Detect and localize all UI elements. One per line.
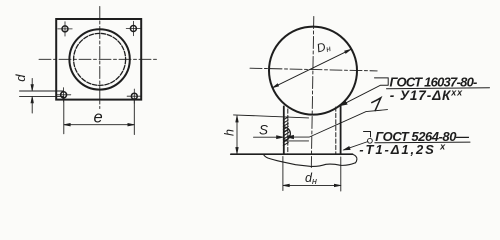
hole top-right — [126, 21, 140, 35]
hole bottom-left — [56, 88, 70, 102]
sphere vertical center line — [311, 17, 314, 168]
tube left wall — [283, 106, 285, 154]
weld callout leader (lower, ГОСТ 5264-80) with closed-contour circle — [344, 132, 373, 150]
base plate wavy break line (bottom) — [264, 155, 356, 167]
sphere horizontal center line — [250, 68, 377, 71]
svg-text:h: h — [223, 129, 237, 136]
svg-text:S: S — [259, 122, 268, 137]
pipe outer circle — [69, 29, 129, 89]
svg-text:e: e — [94, 109, 103, 127]
tube right wall — [340, 105, 342, 154]
vertical center line — [99, 7, 101, 109]
base plate broken-out edge (right) — [353, 154, 357, 163]
dimension d line with arrows — [31, 79, 34, 114]
horizontal center line — [39, 58, 159, 60]
dimension e line with arrows — [64, 123, 135, 126]
base plate top surface — [231, 153, 353, 155]
weld bead half-disc on left wall — [284, 127, 291, 140]
svg-text:- У17-ΔКхх: - У17-ΔКхх — [390, 87, 463, 103]
tube inner wall right (hidden) — [335, 107, 337, 154]
tube inner wall left (hidden) — [287, 109, 289, 154]
dimension d extension lines — [20, 91, 64, 96]
inner weld lower edge line — [284, 140, 309, 142]
weld callout leader (upper, ГОСТ 16037-80) — [341, 78, 389, 106]
h top extension line continuing inside tube — [234, 115, 309, 118]
svg-text:-Т1-Δ1,2S х: -Т1-Δ1,2S х — [359, 142, 447, 157]
svg-text:dн: dн — [305, 171, 317, 186]
wall hatch strip — [283, 117, 288, 146]
label 1 — [372, 98, 381, 111]
ball (sphere) outline — [269, 27, 357, 115]
svg-text:Dн: Dн — [315, 38, 332, 56]
dimension e extension lines — [64, 99, 135, 135]
svg-text:d: d — [13, 74, 28, 82]
dimension h line with arrows — [236, 116, 239, 154]
square flange plate (top view) — [56, 19, 141, 100]
position 1 leader with arrow — [287, 110, 388, 139]
weld bead hatching — [284, 129, 290, 141]
pipe inner circle — [74, 33, 126, 85]
dimension dн line with arrows — [283, 184, 341, 187]
hole top-left — [58, 22, 72, 36]
dimension S arrow — [254, 136, 284, 139]
underline — [387, 87, 490, 90]
dimension dн extension lines — [283, 157, 341, 192]
hole bottom-right — [127, 89, 141, 103]
dimension Dн diagonal line with arrows — [272, 49, 351, 88]
underline — [375, 141, 470, 144]
